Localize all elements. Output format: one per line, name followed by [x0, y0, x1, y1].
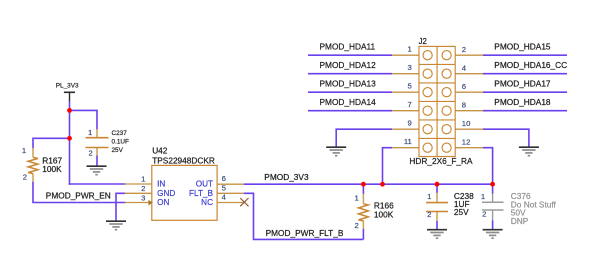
svg-text:5: 5 — [408, 81, 412, 90]
svg-text:PMOD_3V3: PMOD_3V3 — [264, 172, 309, 182]
svg-text:NC: NC — [201, 198, 213, 207]
svg-text:U42: U42 — [152, 146, 168, 156]
svg-text:6: 6 — [222, 174, 226, 183]
svg-text:PMOD_PWR_EN: PMOD_PWR_EN — [46, 191, 111, 201]
svg-text:DNP: DNP — [511, 216, 529, 226]
svg-text:PMOD_HDA15: PMOD_HDA15 — [494, 41, 551, 51]
svg-text:4: 4 — [222, 193, 227, 202]
svg-text:PMOD_HDA14: PMOD_HDA14 — [320, 97, 377, 107]
svg-text:3: 3 — [408, 63, 412, 72]
svg-text:11: 11 — [404, 137, 412, 146]
svg-text:IN: IN — [157, 180, 165, 189]
svg-text:2: 2 — [462, 45, 466, 54]
svg-text:TPS22948DCKR: TPS22948DCKR — [152, 155, 215, 165]
svg-text:100K: 100K — [42, 164, 62, 174]
svg-text:10: 10 — [462, 119, 471, 128]
svg-text:4: 4 — [462, 64, 467, 73]
svg-text:1: 1 — [481, 192, 485, 201]
svg-text:2: 2 — [23, 173, 27, 182]
svg-text:C237: C237 — [112, 130, 128, 137]
svg-text:25V: 25V — [112, 147, 124, 154]
svg-text:1: 1 — [408, 44, 412, 53]
svg-text:PMOD_PWR_FLT_B: PMOD_PWR_FLT_B — [266, 228, 344, 238]
svg-text:OUT: OUT — [196, 180, 213, 189]
svg-text:1: 1 — [427, 192, 431, 201]
svg-text:5: 5 — [222, 183, 226, 192]
svg-text:7: 7 — [408, 100, 412, 109]
svg-text:3: 3 — [141, 193, 145, 202]
svg-text:1: 1 — [141, 175, 145, 184]
svg-text:2: 2 — [355, 221, 359, 230]
svg-text:12: 12 — [462, 138, 471, 147]
svg-text:25V: 25V — [454, 207, 469, 217]
svg-text:1: 1 — [355, 194, 359, 203]
svg-text:PMOD_HDA18: PMOD_HDA18 — [494, 97, 551, 107]
svg-text:PMOD_HDA11: PMOD_HDA11 — [320, 41, 376, 51]
svg-text:100K: 100K — [374, 209, 394, 219]
svg-text:8: 8 — [462, 101, 466, 110]
svg-text:2: 2 — [427, 210, 431, 219]
svg-text:9: 9 — [408, 118, 412, 127]
svg-text:PL_3V3: PL_3V3 — [56, 82, 79, 89]
svg-text:2: 2 — [141, 184, 145, 193]
svg-text:1: 1 — [22, 146, 26, 155]
svg-text:PMOD_HDA13: PMOD_HDA13 — [320, 78, 377, 88]
svg-text:2: 2 — [89, 149, 93, 158]
svg-text:0.1UF: 0.1UF — [112, 139, 129, 146]
svg-text:2: 2 — [482, 209, 486, 218]
svg-text:PMOD_HDA16_CC: PMOD_HDA16_CC — [494, 60, 567, 70]
svg-text:GND: GND — [157, 189, 175, 198]
svg-text:HDR_2X6_F_RA: HDR_2X6_F_RA — [409, 156, 473, 166]
svg-text:PMOD_HDA17: PMOD_HDA17 — [494, 78, 551, 88]
svg-text:6: 6 — [462, 82, 466, 91]
svg-text:1: 1 — [88, 128, 92, 137]
svg-text:FLT_B: FLT_B — [189, 189, 214, 198]
svg-text:J2: J2 — [419, 37, 427, 46]
svg-text:ON: ON — [157, 198, 169, 207]
svg-text:PMOD_HDA12: PMOD_HDA12 — [320, 60, 377, 70]
